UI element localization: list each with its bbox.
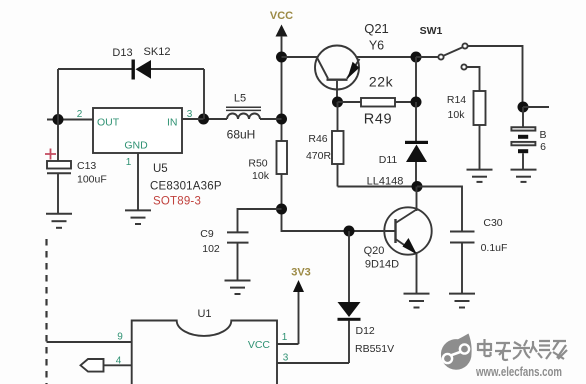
wire battery node stub right xyxy=(523,106,549,108)
svg-text:CE8301A36P: CE8301A36P xyxy=(150,181,222,193)
wire U1 pin9 xyxy=(47,341,132,343)
node Q21 emitter / SW1 / D11 junction xyxy=(411,52,422,63)
svg-text:U1: U1 xyxy=(197,308,211,320)
node U5 IN / D13 junction xyxy=(198,114,209,125)
wire VCC rail vertical xyxy=(281,57,283,141)
transistor Q21 (PNP, Y6) xyxy=(315,21,389,102)
svg-text:VCC: VCC xyxy=(270,10,293,22)
node Q21 base / R49 / R46 junction xyxy=(332,97,343,108)
ground U5 pin1 xyxy=(125,210,151,224)
input flag on pin4 xyxy=(81,359,132,372)
watermark logo elecfans xyxy=(441,334,472,370)
svg-text:2: 2 xyxy=(77,109,83,120)
node C13 / D13 / U5 OUT junction xyxy=(53,114,64,125)
svg-text:R50: R50 xyxy=(248,158,267,170)
ground C9 xyxy=(225,281,251,295)
net VCC power symbol xyxy=(270,10,293,57)
ground R14 xyxy=(467,170,493,182)
node battery top junction xyxy=(518,102,529,113)
ground C30 xyxy=(449,294,475,308)
dashed boundary line xyxy=(45,239,47,384)
capacitor C13 100uF polarized xyxy=(45,120,107,214)
wire U5 pin1 to ground xyxy=(137,153,139,210)
svg-text:1: 1 xyxy=(282,332,288,343)
svg-text:4: 4 xyxy=(116,356,122,367)
svg-text:10k: 10k xyxy=(252,170,270,182)
ground Q20 emitter xyxy=(404,294,430,308)
svg-text:102: 102 xyxy=(202,243,220,255)
resistor R46 470R xyxy=(306,102,344,187)
diode D12 RB551V xyxy=(338,231,395,363)
svg-text:D12: D12 xyxy=(356,325,375,337)
svg-text:R46: R46 xyxy=(308,133,327,145)
wire Q21 emitter to SW1 node xyxy=(357,56,416,58)
svg-text:SW1: SW1 xyxy=(420,25,443,37)
svg-text:IN: IN xyxy=(167,117,178,129)
svg-text:C30: C30 xyxy=(483,217,502,229)
diode D13 SK12 bypass xyxy=(58,46,204,120)
wire U5 pin2 to C13 node xyxy=(47,119,93,121)
net 3V3 label and arrow xyxy=(291,267,311,345)
svg-text:22k: 22k xyxy=(369,74,394,90)
battery B 6 xyxy=(511,107,546,170)
wire SW1 node down to R49 right xyxy=(415,57,417,102)
svg-text:R49: R49 xyxy=(364,112,392,128)
watermark text 电子发烧友 xyxy=(478,339,567,360)
wire node to C30 top xyxy=(417,187,462,232)
node D11 bottom / Q20 collector junction xyxy=(412,181,423,192)
node VCC-Q21 junction xyxy=(276,52,287,63)
wire R46 bottom to D11 bottom node xyxy=(338,186,418,188)
inductor L5 68uH xyxy=(204,93,282,142)
wire VCC rail lower segment to Q20 base wire xyxy=(282,174,396,231)
svg-text:Q21: Q21 xyxy=(364,21,389,36)
wire Q21 collector to VCC rail xyxy=(282,56,318,58)
transistor Q20 (NPN, 9D14D) xyxy=(364,187,432,294)
node Q20 base / D12 junction xyxy=(344,226,355,237)
switch SW1 xyxy=(416,25,468,70)
node R50 bottom / C9 junction xyxy=(276,204,287,215)
ground battery xyxy=(511,170,537,182)
IC U1 xyxy=(132,308,277,384)
svg-text:GND: GND xyxy=(124,140,148,152)
svg-text:C9: C9 xyxy=(200,228,214,240)
svg-text:RB551V: RB551V xyxy=(355,343,394,355)
svg-text:OUT: OUT xyxy=(97,117,120,129)
svg-text:D11: D11 xyxy=(379,154,398,166)
resistor R14 10k xyxy=(447,91,486,170)
wire U1 pin1 VCC to 3V3 xyxy=(277,343,299,345)
capacitor C30 0.1uF xyxy=(450,217,507,293)
svg-text:3: 3 xyxy=(283,353,289,364)
svg-text:B: B xyxy=(539,129,546,141)
svg-text:0.1uF: 0.1uF xyxy=(481,242,508,254)
svg-text:Y6: Y6 xyxy=(369,39,384,53)
svg-text:LL4148: LL4148 xyxy=(367,176,404,188)
ground C13 xyxy=(46,214,72,228)
node L5 output junction xyxy=(276,114,287,125)
svg-text:D13: D13 xyxy=(112,47,132,59)
svg-text:SK12: SK12 xyxy=(144,46,171,58)
svg-text:3V3: 3V3 xyxy=(291,267,311,279)
svg-text:68uH: 68uH xyxy=(227,128,256,142)
capacitor C9 102 xyxy=(200,209,281,280)
wire U1 pin3 to D12 xyxy=(277,362,349,364)
resistor R50 10k xyxy=(248,141,287,182)
svg-text:1: 1 xyxy=(126,157,132,168)
svg-text:U5: U5 xyxy=(153,163,168,175)
wire SW1 top throw to battery xyxy=(468,46,523,107)
svg-text:SOT89-3: SOT89-3 xyxy=(153,196,201,208)
node R49 right / D11 top junction xyxy=(411,97,422,108)
svg-text:www.elecfans.com: www.elecfans.com xyxy=(475,364,562,379)
svg-text:9: 9 xyxy=(117,332,123,343)
svg-text:470R: 470R xyxy=(306,150,332,162)
svg-text:9D14D: 9D14D xyxy=(365,259,399,271)
svg-text:6: 6 xyxy=(540,141,546,153)
svg-text:Q20: Q20 xyxy=(364,245,385,257)
svg-text:10k: 10k xyxy=(448,109,466,121)
svg-text:L5: L5 xyxy=(234,93,246,105)
diode D11 LL4148 xyxy=(367,102,428,188)
svg-text:VCC: VCC xyxy=(248,339,271,351)
resistor R49 22k xyxy=(338,74,417,128)
svg-text:R14: R14 xyxy=(447,94,466,106)
wire U5 pin3 stub xyxy=(182,118,204,120)
svg-text:100uF: 100uF xyxy=(77,174,107,186)
wire SW1 lower throw to R14 xyxy=(467,67,480,91)
regulator U5 CE8301A36P xyxy=(77,108,222,208)
svg-text:C13: C13 xyxy=(77,160,96,172)
